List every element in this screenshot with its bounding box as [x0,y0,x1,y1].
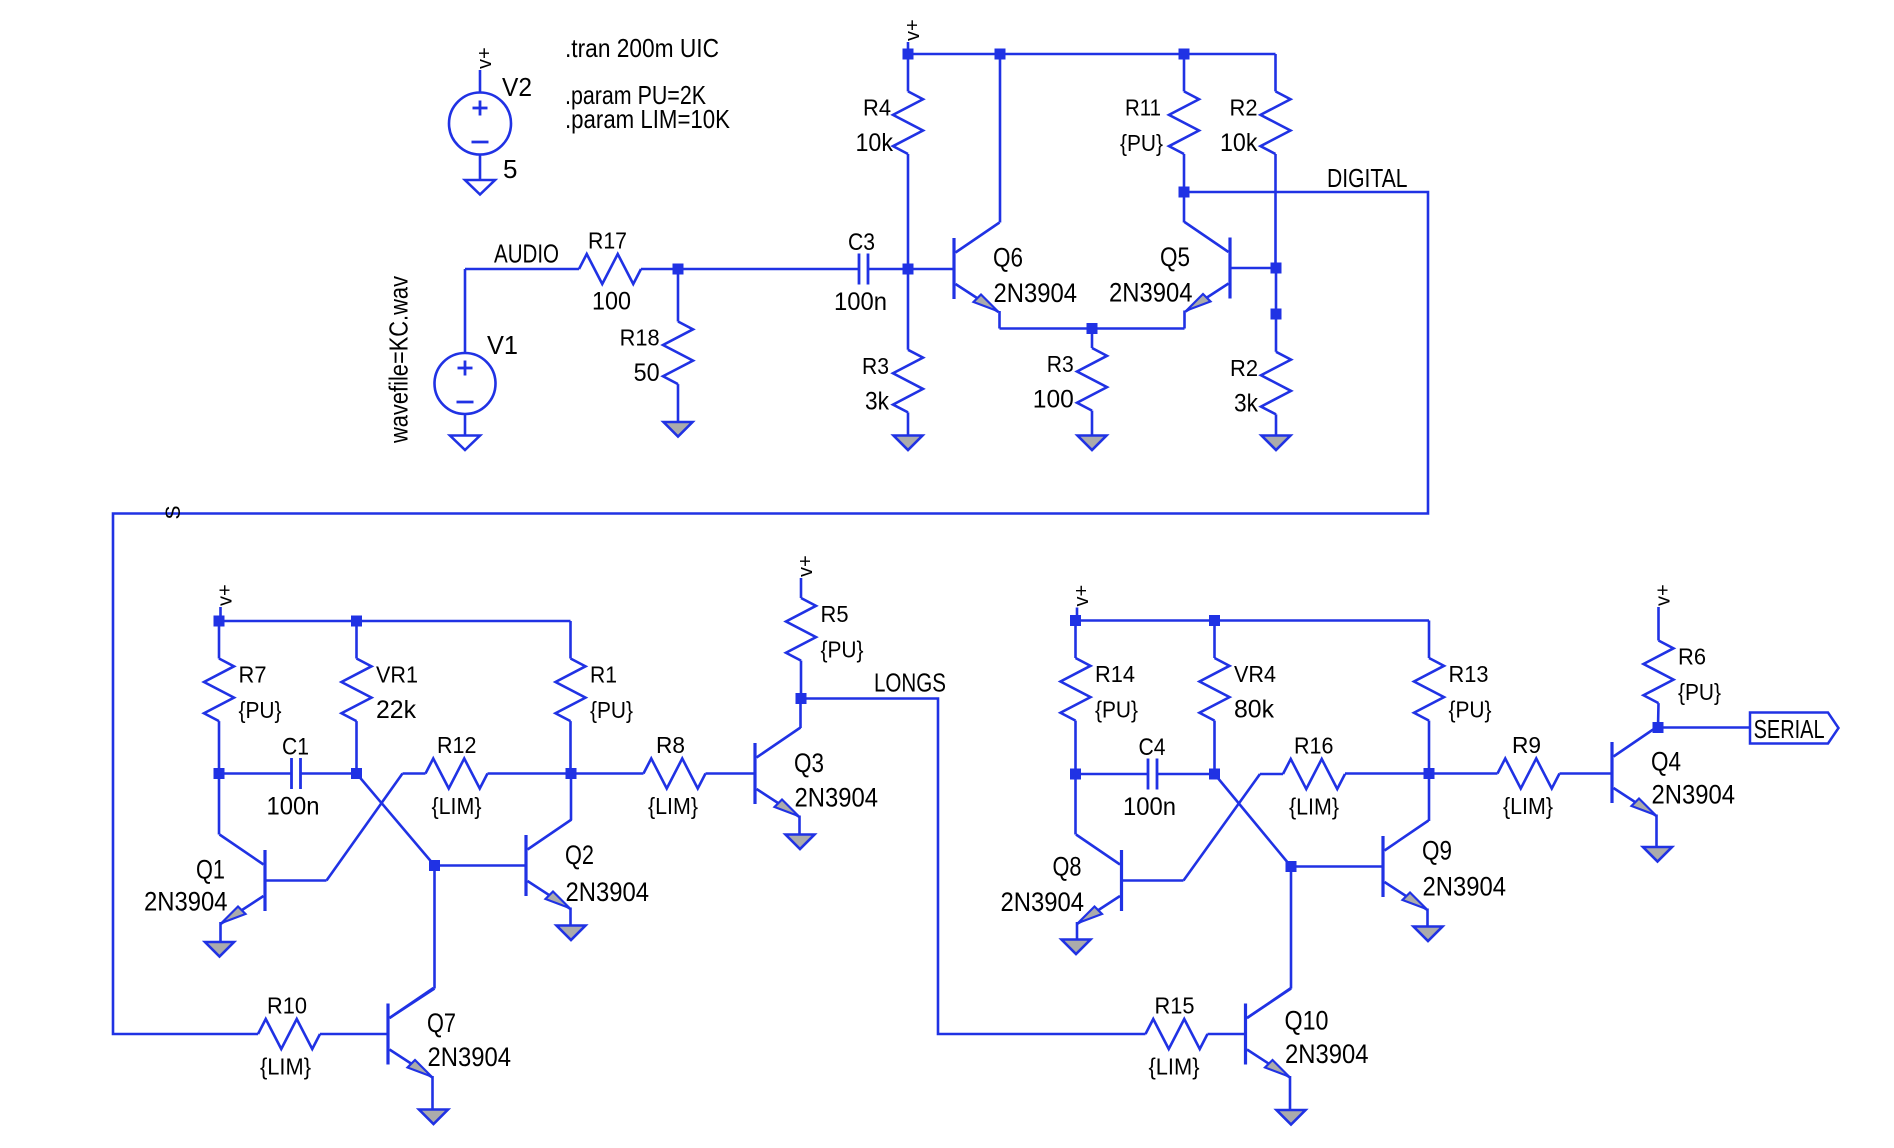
node R11/Q5 collector/DIGITAL [1179,187,1190,198]
wire divider middle [1275,268,1278,314]
svg-text:AUDIO: AUDIO [494,241,559,269]
svg-text:100: 100 [592,288,631,316]
svg-text:wavefile=KC.wav: wavefile=KC.wav [384,276,414,444]
svg-text:Q9: Q9 [1422,836,1452,866]
svg-text:100n: 100n [267,793,320,821]
wire C3 node to Q6 base [908,268,954,271]
transistor Q2 (2N3904) [526,820,649,910]
resistor R13 {PU} [1414,621,1492,774]
transistor Q7 (2N3904) [388,988,511,1078]
svg-text:{LIM}: {LIM} [1503,793,1553,819]
svg-text:Q3: Q3 [794,748,824,778]
svg-text:R11: R11 [1125,94,1161,120]
svg-text:Q2: Q2 [565,840,594,870]
wire Q8 emitter [1076,922,1079,940]
node rail/R14 [1070,615,1081,626]
voltage source V1 (wavefile) [384,269,519,444]
capacitor C1 (100n) [219,734,357,821]
transistor Q1 (2N3904) [144,835,265,925]
svg-text:C3: C3 [848,229,875,256]
spice directive .tran [565,33,719,63]
svg-text:R4: R4 [863,94,891,120]
svg-text:R13: R13 [1449,661,1489,687]
svg-text:R12: R12 [437,732,477,758]
ground (Q1) [205,942,234,957]
svg-text:v+: v+ [215,584,237,606]
svg-text:R1: R1 [590,662,617,688]
svg-text:Q4: Q4 [1651,747,1681,777]
power flag V+ (R6) [1653,584,1675,640]
svg-text:100n: 100n [834,288,887,316]
node C4 right [1209,769,1220,780]
wire Q2 emitter [569,908,572,926]
net label LONGS [874,670,946,698]
power flag V+ (right astable) [1071,585,1093,621]
wire Q2 base lead [435,864,527,867]
resistor R17 (100) [579,228,641,316]
svg-text:v+: v+ [474,47,496,69]
svg-text:{PU}: {PU} [1120,130,1163,156]
resistor R9 {LIM} [1498,732,1613,819]
svg-text:2N3904: 2N3904 [795,783,879,813]
resistor R1 {PU} [556,621,634,774]
resistor R4 (10k) [856,54,924,269]
svg-text:100: 100 [1033,386,1074,414]
svg-text:2N3904: 2N3904 [1285,1039,1369,1069]
svg-text:2N3904: 2N3904 [1652,780,1736,810]
svg-text:Q5: Q5 [1160,242,1190,272]
resistor R18 (50) [620,269,693,422]
capacitor C4 (100n) [1076,734,1215,821]
node C1 right [351,768,362,779]
wire LONGS run [801,699,1146,1035]
wire DIGITAL long run [113,192,1428,1034]
node R12/R1/R8 [566,768,577,779]
wire cross-couple C1 to Q2 base node [357,774,435,866]
svg-text:.tran 200m UIC: .tran 200m UIC [565,33,719,63]
svg-text:80k: 80k [1234,696,1274,724]
svg-text:Q8: Q8 [1053,852,1082,882]
transistor Q9 (2N3904) [1383,821,1506,911]
svg-text:2N3904: 2N3904 [428,1042,512,1072]
svg-text:10k: 10k [1220,129,1258,157]
ground (Q3) [786,835,815,850]
svg-text:3k: 3k [865,387,889,415]
resistor R11 {PU} [1120,54,1199,192]
svg-text:{PU}: {PU} [821,637,864,663]
svg-text:R18: R18 [620,325,660,351]
resistor VR1 (22k) [342,621,419,774]
svg-text:Q6: Q6 [993,243,1023,273]
power flag V+ (R5) [795,555,817,598]
svg-text:R2: R2 [1230,355,1258,381]
svg-text:.param LIM=10K: .param LIM=10K [565,104,731,134]
svg-text:R15: R15 [1155,993,1195,1019]
node C1 left [214,768,225,779]
svg-text:LONGS: LONGS [874,670,946,698]
svg-text:v+: v+ [795,555,817,577]
svg-text:{LIM}: {LIM} [648,793,698,819]
spice directive .param PU [565,80,707,110]
svg-text:R14: R14 [1095,661,1135,687]
resistor R3 (3k) [862,269,923,436]
ground (Q2) [557,926,586,941]
svg-text:Q1: Q1 [196,855,225,885]
resistor R14 {PU} [1061,621,1139,775]
wire Q6 collector [999,54,1002,223]
svg-text:{PU}: {PU} [1095,697,1138,723]
wire Q9 base lead [1291,865,1383,868]
wire Q7 collector diag [390,989,435,1019]
resistor R8 {LIM} [644,732,756,819]
svg-text:R2: R2 [1230,94,1258,120]
node Q2 base node [429,860,440,871]
svg-text:VR1: VR1 [376,662,418,688]
ground (R3 100) [1078,436,1107,451]
svg-text:22k: 22k [376,696,416,724]
node rail/R7 [214,616,225,627]
spice directive .param LIM [565,104,731,134]
svg-text:S: S [162,505,185,519]
svg-text:V2: V2 [502,72,532,102]
resistor R7 {PU} [204,621,282,774]
wire to SERIAL port [1658,726,1750,729]
wire Q10 collector diag [1247,989,1291,1019]
net label AUDIO [494,241,559,269]
resistor R2 (3k) [1230,314,1291,436]
wire Q6 emitter to shared node [1000,311,1093,329]
wire Q1 collector [218,774,221,835]
ground (Q7) [419,1110,448,1125]
wire right astable rail [1076,619,1430,622]
power flag V+ (top rail) [902,19,924,54]
transistor Q5 (2N3904) [1109,222,1230,312]
wire cross-couple Q1 base to R12 [327,774,403,881]
svg-text:2N3904: 2N3904 [1001,887,1085,917]
ground (R18) [664,422,693,437]
ground (Q4) [1643,847,1672,862]
svg-text:R3: R3 [1047,351,1074,377]
wire Q9 collector [1428,774,1431,822]
node emitters/R3 [1087,323,1098,334]
node rail/Q6 collector [995,49,1006,60]
svg-text:2N3904: 2N3904 [994,278,1078,308]
wire AUDIO net [465,268,579,271]
node R6/Q4/SERIAL [1653,722,1664,733]
wire Q7 collector [433,866,436,989]
resistor R3 (100) [1033,329,1107,436]
wire cross-couple Q8 base to R16 [1184,774,1261,881]
node divider [1271,309,1282,320]
wire R17 to C3 [641,268,859,271]
ground (Q10) [1277,1110,1306,1125]
svg-text:R16: R16 [1294,733,1334,759]
wire Q4 emitter [1655,815,1658,848]
svg-text:2N3904: 2N3904 [566,877,650,907]
svg-text:VR4: VR4 [1234,661,1276,687]
transistor Q8 (2N3904) [1001,835,1122,925]
node rail/R4 [903,49,914,60]
svg-text:R17: R17 [588,228,627,254]
svg-text:C1: C1 [282,734,309,761]
output port SERIAL [1750,713,1839,745]
svg-text:R3: R3 [862,353,889,379]
wire Q1 emitter [219,922,222,942]
svg-text:DIGITAL: DIGITAL [1327,165,1408,193]
wire Q8 base lead [1122,879,1184,882]
node rail/R11 [1179,49,1190,60]
svg-text:{PU}: {PU} [590,697,633,723]
svg-text:R7: R7 [239,662,267,688]
resistor R16 {LIM} [1260,733,1429,820]
transistor Q3 (2N3904) [755,728,878,818]
svg-text:50: 50 [634,359,660,387]
wire Q9 emitter [1426,909,1429,927]
node LONGS tee [796,693,807,704]
svg-text:C4: C4 [1139,734,1166,761]
wire cross-couple C4 to Q9 base node [1215,774,1292,867]
wire Q3 collector [799,699,802,729]
net label DIGITAL [1327,165,1408,193]
power flag V+ (left astable) [215,584,237,621]
svg-text:{LIM}: {LIM} [260,1054,311,1080]
voltage source V2 (5V) [449,47,532,184]
resistor R15 {LIM} [1146,993,1246,1080]
svg-text:{LIM}: {LIM} [1289,794,1339,820]
svg-text:R8: R8 [656,732,685,758]
svg-text:10k: 10k [856,129,894,157]
node Q5 base/R2 [1271,263,1282,274]
ground (V2) [465,180,495,195]
node R18 junction [673,264,684,275]
ground (Q8) [1062,940,1091,955]
node rail/VR4 [1209,615,1220,626]
wire Q3 emitter [798,816,801,835]
svg-text:v+: v+ [1071,585,1093,607]
ground (R3 3k) [894,436,923,451]
node Q9 base node [1286,861,1297,872]
wire Q2 collector [570,774,573,821]
resistor R2 (10k) [1220,54,1291,268]
wire Q10 collector [1290,867,1293,989]
svg-text:{PU}: {PU} [239,697,282,723]
ground (Q9) [1414,927,1443,942]
svg-text:{LIM}: {LIM} [1149,1054,1200,1080]
net label S (rotated) [162,505,185,519]
svg-text:2N3904: 2N3904 [1423,872,1507,902]
ground (V1) [450,436,480,451]
wire Q7 emitter [431,1076,434,1110]
wire left astable rail [219,620,571,623]
svg-text:SERIAL: SERIAL [1754,716,1825,744]
svg-text:v+: v+ [1653,584,1675,606]
wire Q5 base to divider [1230,267,1276,270]
svg-text:Q7: Q7 [427,1008,456,1038]
node rail/VR1 [351,616,362,627]
svg-text:R10: R10 [267,993,307,1019]
svg-text:{PU}: {PU} [1678,679,1721,705]
svg-text:2N3904: 2N3904 [1109,278,1193,308]
transistor Q10 (2N3904) [1246,988,1369,1078]
wire Q5 collector [1183,192,1186,223]
svg-text:{PU}: {PU} [1449,697,1492,723]
capacitor C3 (100n) [834,229,908,316]
resistor R5 {PU} [786,598,864,699]
node C3/R4/R3 junction [903,264,914,275]
transistor Q4 (2N3904) [1612,727,1735,817]
svg-text:2N3904: 2N3904 [144,887,228,917]
svg-text:Q10: Q10 [1285,1006,1329,1036]
svg-text:100n: 100n [1123,793,1176,821]
wire Q1 base lead [265,879,327,882]
wire Q10 emitter [1289,1076,1292,1110]
svg-text:3k: 3k [1234,389,1258,417]
svg-text:5: 5 [503,154,517,184]
svg-text:R5: R5 [821,601,849,627]
wire Q8 collector [1074,774,1077,835]
resistor VR4 (80k) [1200,621,1277,775]
transistor Q6 (2N3904) [954,223,1077,313]
wire R9 lead [1429,772,1498,775]
node R16/R13/R9 [1424,768,1435,779]
svg-text:R6: R6 [1678,644,1706,670]
ground (R2 3k) [1262,436,1291,451]
svg-text:V1: V1 [487,330,518,360]
wire R8 lead [571,772,644,775]
resistor R12 {LIM} [403,732,572,819]
node C4 left [1070,769,1081,780]
svg-text:v+: v+ [902,19,924,41]
resistor R10 {LIM} [258,993,388,1080]
svg-text:R9: R9 [1512,732,1541,758]
svg-text:{LIM}: {LIM} [432,793,482,819]
wire Q5 emitter to shared node [1092,311,1185,329]
resistor R6 {PU} [1644,641,1722,728]
wire top V+ rail [908,53,1276,56]
